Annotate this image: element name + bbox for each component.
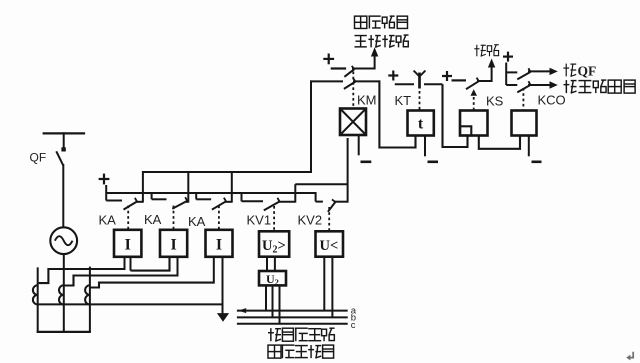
wire KV2 to phase b <box>331 257 333 318</box>
wire contact output rail <box>143 171 311 173</box>
contact KA1 <box>106 200 122 202</box>
svg-text:U<: U< <box>320 238 339 254</box>
wire KCO contact feed <box>505 63 507 86</box>
svg-text:KCO: KCO <box>538 93 566 108</box>
contact KV2 <box>315 192 317 202</box>
link KA2 <box>173 206 175 230</box>
svg-text:KT: KT <box>395 93 412 108</box>
wire CT B secondary tap <box>64 276 178 286</box>
CT TA3 <box>85 285 90 304</box>
wire signal arrow KS <box>491 66 493 82</box>
svg-text:KV1: KV1 <box>247 213 272 228</box>
contact KCO upper <box>506 71 517 73</box>
link KS <box>471 89 478 96</box>
svg-text:I: I <box>125 237 131 254</box>
relay KA3 coil <box>206 230 233 257</box>
wire KCO to minus <box>528 136 530 157</box>
svg-text:KM: KM <box>357 93 377 108</box>
wire KS to KCO coil <box>479 136 520 149</box>
contact KM lower <box>311 80 343 82</box>
wire KA1-KA2 link <box>131 257 170 271</box>
svg-text:I: I <box>216 237 222 254</box>
wire KV1 to U2 <box>266 257 268 271</box>
contact KA2 <box>151 192 153 199</box>
relay KV2 coil <box>316 231 344 256</box>
contact KT delayed <box>395 83 414 85</box>
wire KT to minus <box>424 136 426 157</box>
svg-text:QF: QF <box>30 151 47 165</box>
wire KM coil feed <box>347 138 349 203</box>
relay KT coil <box>408 111 434 136</box>
relay KS coil <box>460 111 488 136</box>
svg-text:KA: KA <box>188 214 206 229</box>
wire KA1 coil terminals <box>124 257 126 270</box>
wire KM contact to KT coil <box>379 80 415 147</box>
node plus bus <box>99 178 110 180</box>
relay KV1 coil <box>259 231 289 256</box>
svg-text:KV2: KV2 <box>298 213 323 228</box>
wire KM to minus <box>358 135 360 155</box>
generator G <box>50 227 77 254</box>
contact KV1 <box>241 192 243 201</box>
wire U2 to phase b <box>272 285 274 317</box>
CT TA1 <box>33 285 38 304</box>
wire CT A secondary tap <box>38 269 125 283</box>
wire signal arrow up <box>374 55 376 70</box>
contact KS <box>452 79 467 81</box>
wire generator down phase B <box>63 254 65 332</box>
link KV2 <box>328 207 330 231</box>
svg-text:QF: QF <box>578 64 597 79</box>
wire QF stub <box>63 132 65 148</box>
relay KA2 coil <box>160 230 187 257</box>
node text trip de-excitation switch <box>565 80 567 93</box>
node plus KS <box>442 75 452 77</box>
wire KT contact to KS coil <box>443 84 468 147</box>
wire U2 to phase c <box>279 285 281 323</box>
node plus KM <box>323 58 334 60</box>
contact KCO lower <box>506 84 517 86</box>
wire KA3 left terminal <box>213 257 215 284</box>
node c line <box>237 323 348 325</box>
relay KCO coil <box>512 111 537 136</box>
wire phase C <box>89 267 91 332</box>
svg-text:KA: KA <box>99 213 117 228</box>
contact KM upper <box>331 67 346 69</box>
node minus KT <box>428 161 439 164</box>
node plus KT <box>388 74 398 76</box>
wire QF top busbar <box>43 132 86 134</box>
wire rail riser to KM contact <box>310 80 312 173</box>
wire CT C secondary tap <box>90 283 214 288</box>
node text from LV side <box>270 328 272 341</box>
wire QF to generator <box>62 164 64 228</box>
node signal label <box>476 45 478 57</box>
svg-text:I: I <box>170 237 176 254</box>
contact KA3 <box>195 192 197 199</box>
node minus KM <box>361 161 372 164</box>
wire KV junction <box>294 184 296 202</box>
wire trip field-breaker arrow <box>528 84 550 86</box>
CT TA2 <box>59 285 64 304</box>
pilcrow return mark <box>628 352 633 358</box>
filter U2 <box>259 271 286 285</box>
link KV1 <box>273 206 275 231</box>
link KCO <box>522 88 524 110</box>
wire KA1 contact riser <box>142 171 144 203</box>
relay KA1 coil <box>114 230 141 257</box>
wire KA3 right terminal to ground <box>222 257 224 314</box>
ground arrow <box>217 313 229 322</box>
link KT <box>419 91 421 110</box>
svg-text:c: c <box>351 320 356 331</box>
node text voltage-loop broken-wire signal <box>355 16 367 28</box>
wire secondary common return <box>38 303 223 305</box>
relay KM coil <box>340 109 366 136</box>
breaker QF <box>61 147 65 151</box>
link KA3 <box>218 206 220 230</box>
node text voltage transformer <box>268 345 281 358</box>
link KM <box>352 72 354 108</box>
wire phase A <box>37 267 39 332</box>
node b line <box>237 316 348 318</box>
node text trip QF <box>565 64 567 77</box>
node a line <box>237 310 348 312</box>
svg-text:t: t <box>418 116 424 133</box>
link KA1 <box>127 206 129 230</box>
wire trip QF arrow <box>528 70 550 72</box>
wire KA2 right terminal <box>177 257 179 277</box>
svg-text:KA: KA <box>144 212 162 227</box>
wire KV2 to phase a <box>323 257 325 311</box>
wire U2 to phase a <box>265 285 267 310</box>
svg-text:KS: KS <box>486 94 504 109</box>
wire bottom winding bus <box>37 331 91 333</box>
node plus KCO <box>503 55 513 57</box>
node minus KCO <box>532 161 542 164</box>
